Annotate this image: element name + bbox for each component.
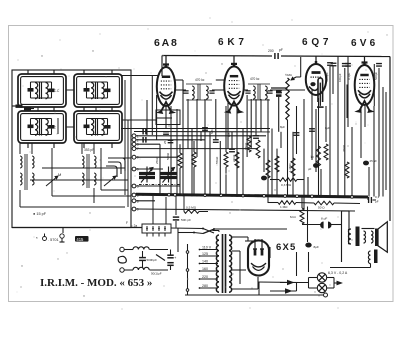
- svg-text:415: 415: [76, 237, 84, 242]
- svg-text:≈ 2a: ≈ 2a: [131, 224, 137, 228]
- svg-text:140: 140: [202, 259, 208, 263]
- svg-text:25KΩ: 25KΩ: [155, 156, 159, 164]
- svg-text:10KpF: 10KpF: [338, 73, 342, 82]
- svg-text:6A8: 6A8: [154, 37, 179, 49]
- svg-text:50K pF: 50K pF: [181, 218, 191, 222]
- svg-text:1,3MΩ: 1,3MΩ: [288, 163, 292, 172]
- svg-text:● 15 pF: ● 15 pF: [33, 212, 47, 216]
- svg-text:0μF: 0μF: [325, 126, 330, 130]
- svg-text:500KpF: 500KpF: [147, 258, 158, 262]
- svg-text:50 Ω: 50 Ω: [318, 206, 325, 210]
- svg-text:350Ω: 350Ω: [342, 144, 346, 152]
- svg-text:55KΩ: 55KΩ: [215, 156, 219, 164]
- svg-text:470 kc: 470 kc: [195, 78, 205, 82]
- svg-text:5000pF: 5000pF: [325, 72, 329, 82]
- svg-text:8μF: 8μF: [280, 125, 285, 129]
- svg-text:200: 200: [268, 49, 274, 53]
- svg-text:0,1: 0,1: [375, 195, 380, 199]
- svg-text:pF: pF: [279, 48, 283, 52]
- svg-text:C.C: C.C: [54, 89, 60, 93]
- svg-text:0,3 MΩ: 0,3 MΩ: [281, 183, 292, 187]
- svg-text:½MΩ: ½MΩ: [285, 73, 292, 77]
- svg-text:110 V: 110 V: [202, 245, 212, 249]
- svg-text:6 K 7: 6 K 7: [218, 37, 244, 48]
- svg-text:I.R.I.M. - MOD. « 653 »: I.R.I.M. - MOD. « 653 »: [40, 277, 152, 289]
- svg-text:*: *: [36, 236, 38, 241]
- svg-text:80K: 80K: [227, 132, 231, 137]
- svg-text:8 μF: 8 μF: [321, 217, 327, 221]
- svg-text:0,5 MΩ: 0,5 MΩ: [186, 206, 197, 210]
- svg-text:500Ω: 500Ω: [166, 152, 170, 160]
- svg-text:1 MΩ: 1 MΩ: [280, 205, 288, 209]
- svg-text:160: 160: [202, 267, 208, 271]
- svg-text:6 Q 7: 6 Q 7: [302, 37, 329, 48]
- svg-text:125: 125: [202, 252, 208, 256]
- svg-text:50(1)μF: 50(1)μF: [151, 272, 162, 276]
- svg-text:470 kc: 470 kc: [250, 77, 260, 81]
- svg-text:25: 25: [163, 140, 167, 144]
- svg-text:50K: 50K: [210, 129, 214, 134]
- svg-text:0,1μF: 0,1μF: [347, 72, 351, 80]
- svg-text:F: F: [126, 221, 128, 225]
- svg-text:25 μF: 25 μF: [370, 159, 378, 163]
- svg-text:22KΩ: 22KΩ: [232, 154, 236, 162]
- svg-text:μF: μF: [308, 167, 312, 171]
- svg-text:500pF: 500pF: [374, 72, 378, 80]
- svg-text:8μF: 8μF: [314, 245, 320, 249]
- svg-text:μF: μF: [375, 200, 379, 204]
- svg-text:353 pF: 353 pF: [84, 148, 94, 152]
- svg-text:M.Ω: M.Ω: [290, 215, 296, 219]
- svg-text:220: 220: [202, 275, 208, 279]
- svg-text:6 V 6: 6 V 6: [351, 38, 376, 49]
- svg-text:280: 280: [202, 284, 208, 288]
- svg-text:. 5701: . 5701: [48, 238, 59, 242]
- svg-text:M: M: [58, 172, 61, 177]
- svg-text:6,3 V - 0,2 A: 6,3 V - 0,2 A: [328, 271, 348, 275]
- svg-text:65KΩ: 65KΩ: [244, 142, 248, 150]
- svg-text:6X5: 6X5: [276, 242, 297, 253]
